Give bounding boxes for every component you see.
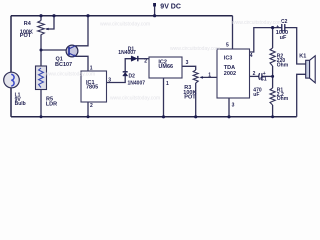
node dot 9V stub xyxy=(153,14,156,17)
svg-text:Ohm: Ohm xyxy=(277,96,289,102)
node dot rail IC3 pin3 xyxy=(227,115,230,118)
wire IC1 pin 3 to D2 xyxy=(107,76,126,83)
node dot rail R1 xyxy=(271,115,274,118)
svg-text:BC107: BC107 xyxy=(55,62,72,68)
wire 9V DC stub xyxy=(154,7,156,16)
node dot R4/R5/base xyxy=(40,49,43,52)
resistor R1 xyxy=(270,88,275,105)
node dot R4 wiper xyxy=(52,14,55,17)
svg-text:www.circuitstoday.com: www.circuitstoday.com xyxy=(110,96,160,102)
node dot rail R3 xyxy=(194,115,197,118)
wire speaker bottom lead to rail xyxy=(297,74,306,117)
wire R4 wiper to rail xyxy=(46,16,54,29)
wire Q1 emitter to IC1 pin 1 xyxy=(75,56,88,71)
svg-text:7805: 7805 xyxy=(86,85,98,91)
lamp L1 xyxy=(4,72,20,88)
wire D2 to D1 xyxy=(125,59,131,72)
svg-text:3: 3 xyxy=(108,78,111,84)
capacitor C2 xyxy=(276,24,285,31)
svg-text:1N4007: 1N4007 xyxy=(128,80,146,86)
resistor R2 xyxy=(270,48,275,66)
capacitor C1 xyxy=(259,71,266,80)
wire C2 to speaker top lead xyxy=(285,28,306,64)
node dot rail IC1 pin2 xyxy=(87,115,90,118)
wire top rail xyxy=(11,15,233,17)
wire Q1 collector to rail xyxy=(75,16,88,46)
wire R1 bottom to rail xyxy=(272,105,274,117)
svg-text:uF: uF xyxy=(280,35,287,41)
svg-text:9V DC: 9V DC xyxy=(160,4,181,11)
svg-text:4: 4 xyxy=(250,53,253,59)
wire IC3 pin 4 to C2 xyxy=(250,28,282,52)
svg-text:1: 1 xyxy=(166,81,169,87)
wire left drop to bulb xyxy=(10,16,12,75)
svg-text:Ohm: Ohm xyxy=(277,63,289,69)
svg-text:2: 2 xyxy=(253,71,256,77)
svg-text:POT: POT xyxy=(184,95,196,101)
node dot C2/R2 xyxy=(271,26,274,29)
IC2 UM66 box xyxy=(149,57,182,78)
wire R4 bottom to node A xyxy=(40,35,42,67)
svg-text:C1: C1 xyxy=(260,77,267,83)
svg-text:IC3: IC3 xyxy=(224,55,233,61)
speaker K1 xyxy=(306,56,316,83)
svg-text:www.circuitstoday.com: www.circuitstoday.com xyxy=(232,20,282,26)
svg-text:uF: uF xyxy=(253,92,259,98)
wire IC3 pin 3 to rail xyxy=(228,98,230,117)
resistor R4 xyxy=(38,21,45,35)
svg-text:www.circuitstoday.com: www.circuitstoday.com xyxy=(45,72,95,78)
svg-text:LDR: LDR xyxy=(46,102,57,108)
wire IC2 pin 1 to rail xyxy=(163,78,165,117)
wire R3 bottom to rail xyxy=(195,83,197,117)
wire rail to IC3 pin 5 xyxy=(232,16,234,49)
arrow R3 wiper xyxy=(200,76,203,79)
wire below bulb to bottom rail xyxy=(10,86,12,117)
IC3 TDA2002 box xyxy=(217,49,250,98)
node dot R4 top xyxy=(39,14,42,17)
svg-text:D2: D2 xyxy=(129,74,136,80)
node dot rail IC2 pin1 xyxy=(162,115,165,118)
svg-text:K1: K1 xyxy=(299,53,306,59)
node dot rail R5 xyxy=(40,115,43,118)
wire junction to R2 xyxy=(272,28,274,48)
svg-text:3: 3 xyxy=(186,60,189,66)
IC1 7805 box xyxy=(81,71,107,102)
svg-text:1N4007: 1N4007 xyxy=(118,50,136,56)
arrow R4 wiper xyxy=(45,28,48,31)
wire LDR bottom to rail xyxy=(40,90,42,117)
terminal 9V DC xyxy=(153,3,156,7)
svg-text:POT: POT xyxy=(20,33,32,39)
wire IC2 pin 3 to R3 xyxy=(182,66,196,70)
diode D2 xyxy=(123,72,128,76)
wire C1 to node B xyxy=(262,75,272,77)
LDR R5 xyxy=(36,66,47,90)
svg-text:2: 2 xyxy=(90,103,93,109)
diode D1 xyxy=(131,56,138,61)
svg-text:3: 3 xyxy=(232,103,235,109)
wire R2 to node B xyxy=(272,66,274,88)
svg-text:1: 1 xyxy=(208,73,211,79)
svg-text:www.circuitstoday.com: www.circuitstoday.com xyxy=(170,46,220,52)
transistor Q1 xyxy=(66,45,78,57)
svg-text:2: 2 xyxy=(144,58,147,64)
svg-text:5: 5 xyxy=(226,43,229,49)
wire IC3 pin 2 to C1 xyxy=(250,75,259,77)
wire R4 top feed xyxy=(40,16,42,21)
resistor R3 xyxy=(193,70,198,83)
svg-text:2002: 2002 xyxy=(224,71,236,77)
svg-text:www.circuitstoday.com: www.circuitstoday.com xyxy=(100,22,150,28)
node dot Q1 collector xyxy=(86,14,89,17)
wire node A to Q1 base xyxy=(41,49,66,51)
wire bottom rail xyxy=(11,116,297,118)
wire IC1 pin 2 to rail xyxy=(87,102,89,117)
wire R3 wiper to IC3 pin 1 xyxy=(201,76,218,78)
svg-text:Bulb: Bulb xyxy=(15,101,26,107)
node dot C1/R2/R1 xyxy=(271,75,274,78)
svg-text:UM66: UM66 xyxy=(158,64,173,70)
wire D1 to IC2 pin 2 xyxy=(138,58,149,60)
svg-text:R4: R4 xyxy=(24,21,32,27)
